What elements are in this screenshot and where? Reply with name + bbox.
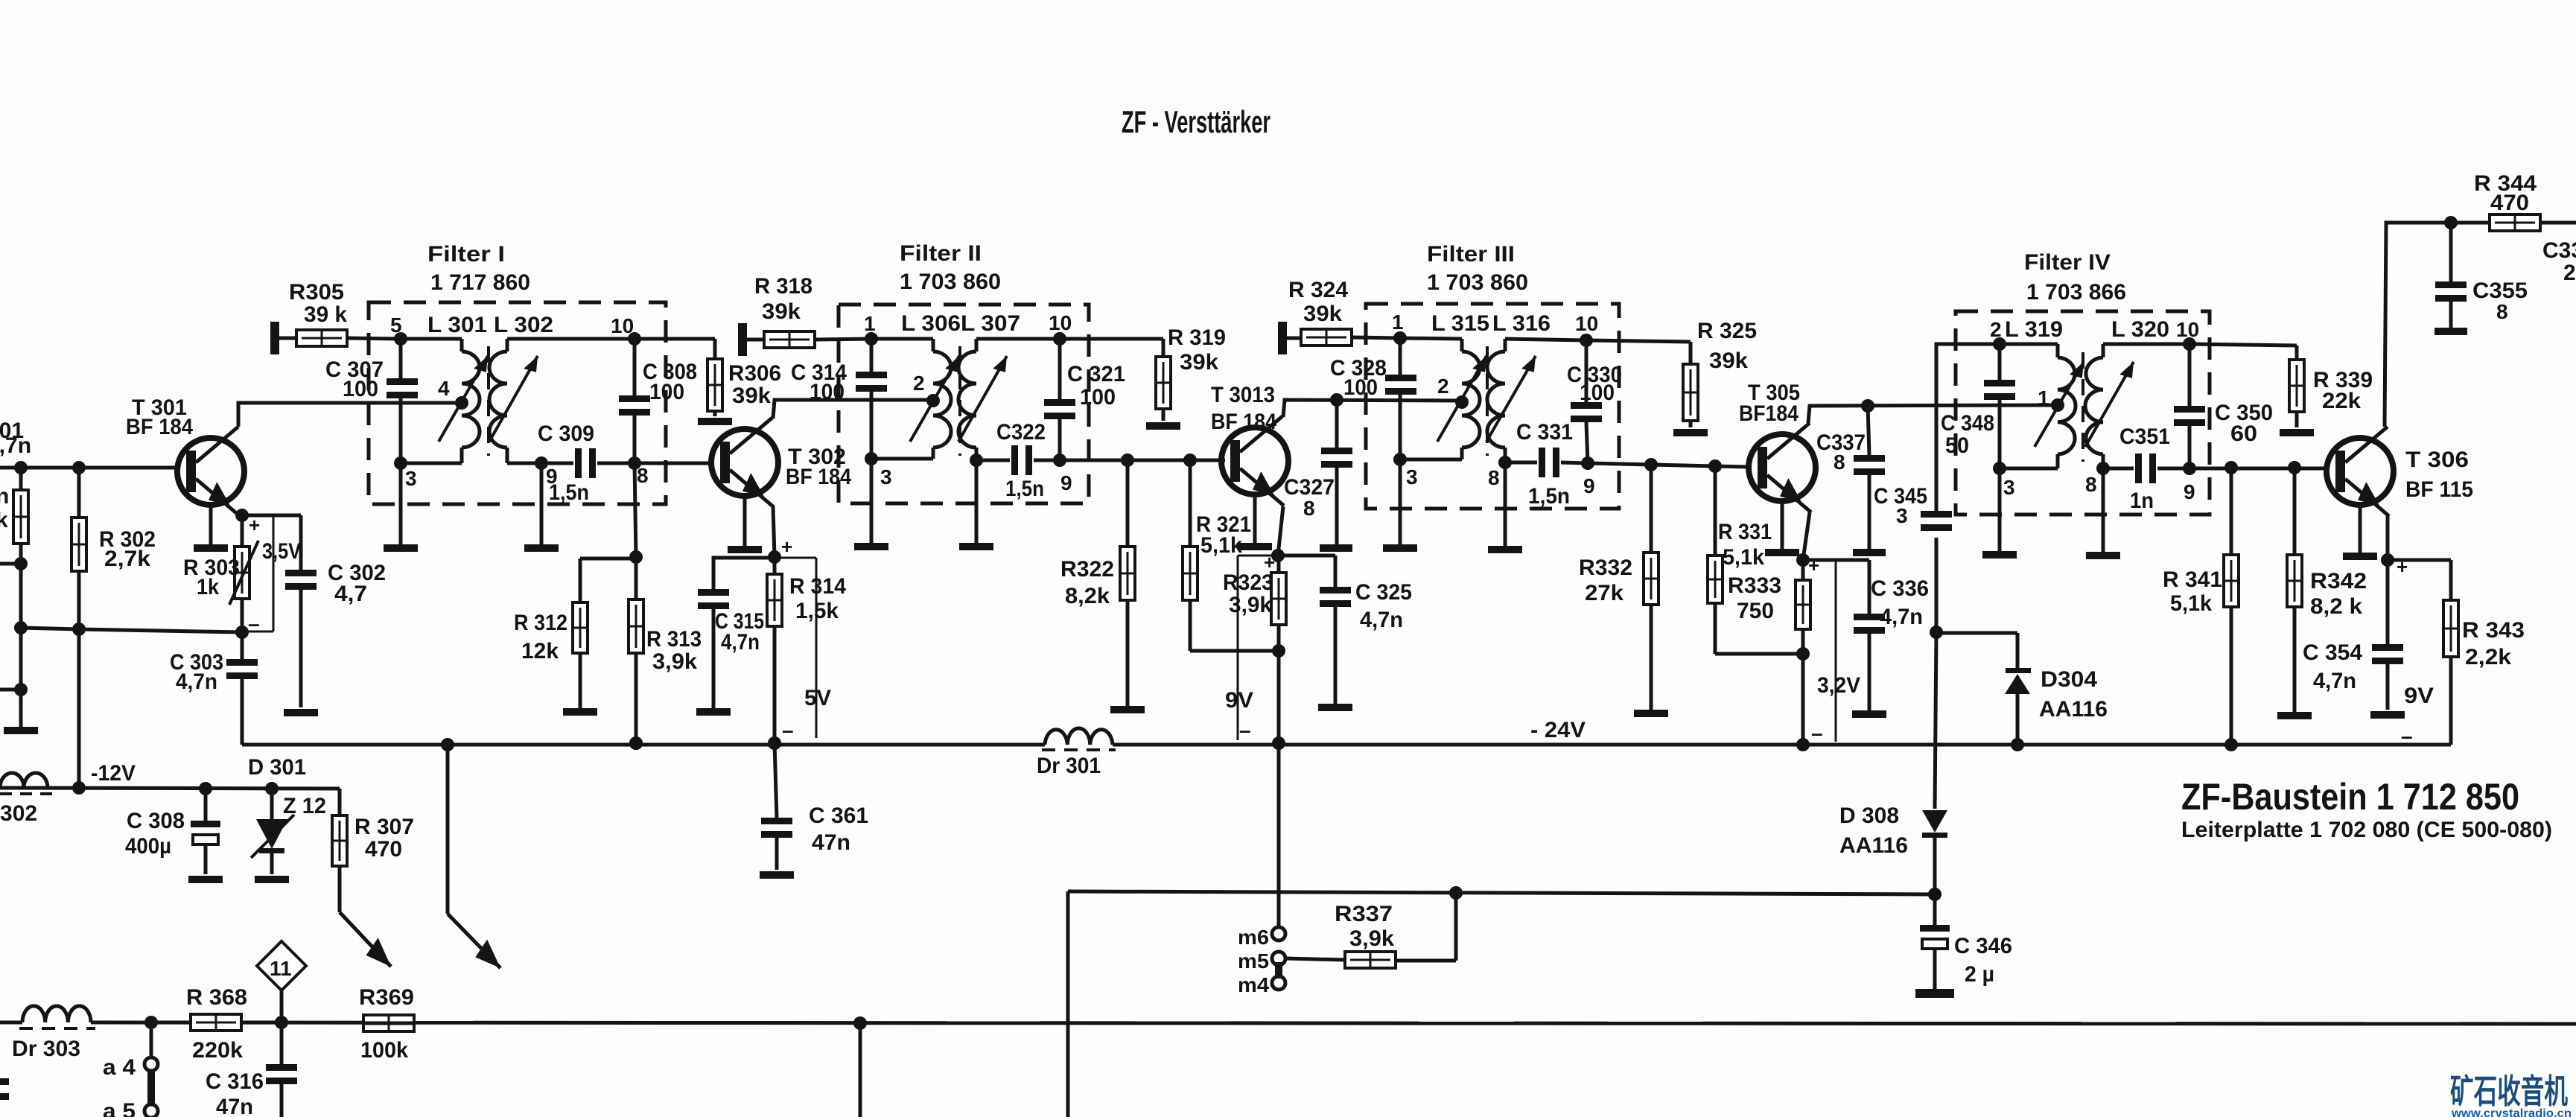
- svg-text:L 306: L 306: [901, 311, 961, 336]
- wire pin8 to T302 base: [635, 462, 711, 465]
- svg-text:r 302: r 302: [0, 801, 37, 826]
- svg-text:R 368: R 368: [186, 985, 247, 1010]
- wire pin2 to L319: [2000, 344, 2058, 357]
- label T306: [2405, 448, 2473, 502]
- svg-text:100: 100: [649, 380, 684, 404]
- svg-text:39k: 39k: [1709, 349, 1748, 373]
- ground R332: [1634, 710, 1668, 717]
- wire L302 top to pin10: [507, 339, 635, 351]
- svg-text:9V: 9V: [1225, 688, 1253, 713]
- label R344: [2474, 171, 2537, 215]
- svg-text:10: 10: [2176, 318, 2199, 341]
- svg-text:100: 100: [343, 377, 378, 401]
- node AGC junction: [1928, 888, 1941, 901]
- svg-text:D 301: D 301: [248, 755, 306, 780]
- capacitor C327: [1320, 400, 1352, 552]
- node pin1 filter II: [864, 312, 878, 346]
- wire pin8 bias drop: [629, 463, 643, 564]
- svg-text:2: 2: [913, 372, 925, 395]
- resistor R323: [1264, 551, 1286, 651]
- svg-text:39k: 39k: [762, 299, 801, 324]
- core line filter IV: [2082, 352, 2084, 462]
- wire T303 collector: [1283, 393, 1460, 417]
- label C361: [809, 803, 868, 855]
- ground R339: [2280, 429, 2314, 436]
- label C316: [206, 1069, 264, 1117]
- label Dr302 fragment: [0, 801, 37, 826]
- title text ZF-Versttaerker: [1122, 104, 1270, 139]
- svg-text:1n: 1n: [2130, 489, 2154, 513]
- label C351: [2119, 424, 2170, 513]
- label T302: [786, 445, 851, 489]
- svg-text:R322: R322: [1060, 557, 1114, 582]
- svg-text:5,1k: 5,1k: [1723, 545, 1764, 570]
- svg-text:47n: 47n: [216, 1095, 253, 1117]
- node pin9 filter II: [1053, 454, 1072, 494]
- svg-text:T 3013: T 3013: [1211, 383, 1275, 407]
- inductor L307: [958, 351, 976, 448]
- resistor R314: [767, 557, 782, 750]
- wire L302 bottom: [507, 448, 541, 463]
- wire pin9III to T305 base: [1588, 458, 1749, 473]
- resistor R303: [229, 515, 258, 639]
- ground C302: [284, 709, 318, 716]
- svg-text:1 717 860: 1 717 860: [430, 270, 530, 295]
- label Filter I: [427, 242, 530, 295]
- svg-text:2,2k: 2,2k: [2465, 645, 2511, 669]
- ground filter I pin3: [384, 463, 418, 552]
- wire emitter to R343: [2388, 560, 2451, 600]
- svg-text:R 313: R 313: [646, 627, 702, 652]
- label L307: [961, 311, 1020, 336]
- svg-text:3,9k: 3,9k: [1229, 593, 1272, 617]
- label R312: [514, 611, 567, 663]
- ground C354: [2370, 711, 2405, 719]
- tuning arrow L320: [2085, 359, 2140, 447]
- svg-text:L 307: L 307: [961, 311, 1020, 336]
- ground filter IV pin3: [1982, 468, 2017, 558]
- contact m4: [1238, 973, 1285, 996]
- svg-text:C 321: C 321: [1067, 362, 1125, 386]
- wire pin10IV to R339: [2189, 344, 2297, 360]
- label R324: [1288, 278, 1348, 326]
- label C336: [1871, 576, 1929, 629]
- capacitor C309: [541, 448, 635, 478]
- svg-text:9V: 9V: [2404, 684, 2434, 708]
- wire pin1 to L315: [1400, 338, 1462, 351]
- label R314: [789, 574, 846, 623]
- capacitor C346: [1915, 894, 1954, 998]
- capacitor C316: [266, 1022, 297, 1117]
- resistor R319: [1156, 357, 1171, 421]
- svg-text:100: 100: [1343, 375, 1378, 400]
- capacitor C322: [976, 445, 1060, 475]
- svg-text:C 331: C 331: [1516, 420, 1573, 445]
- label -24V: [1530, 718, 1586, 742]
- terminal input stage2: [738, 323, 747, 356]
- svg-text:m4: m4: [1238, 973, 1269, 996]
- capacitor C354: [2372, 560, 2403, 710]
- wire T302 emitter to node: [768, 506, 781, 564]
- svg-text:2,7k: 2,7k: [104, 547, 150, 571]
- node pin1 filter III: [1392, 311, 1407, 345]
- label Filter II: [900, 241, 1001, 294]
- svg-text:1 703 866: 1 703 866: [2026, 280, 2126, 305]
- wire m6 tap line: [1277, 743, 1281, 927]
- svg-text:C 354: C 354: [2303, 640, 2362, 665]
- capacitor C314: [856, 339, 887, 459]
- svg-text:R 343: R 343: [2462, 618, 2525, 643]
- svg-text:R332: R332: [1579, 556, 1632, 580]
- node 9 filter I: [535, 456, 558, 488]
- watermark chinese: [2450, 1072, 2568, 1110]
- label R322: [1060, 557, 1114, 608]
- label Leiterplatte: [2181, 818, 2552, 842]
- svg-text:1,5n: 1,5n: [1005, 477, 1044, 501]
- svg-text:10: 10: [1049, 311, 1072, 334]
- svg-text:3: 3: [880, 465, 892, 489]
- svg-text:100k: 100k: [360, 1038, 408, 1063]
- label R305: [289, 280, 347, 327]
- svg-text:4,7n: 4,7n: [0, 433, 31, 458]
- wire T305 collector: [1808, 399, 2058, 423]
- svg-text:1: 1: [1392, 311, 1404, 334]
- capacitor C361: [761, 743, 792, 870]
- label L302: [494, 313, 553, 337]
- resistor R318: [747, 331, 871, 348]
- node R344 junction: [2444, 216, 2458, 229]
- svg-text:矿石收音机: 矿石收音机: [2450, 1072, 2568, 1110]
- svg-text:R369: R369: [359, 985, 414, 1010]
- label L316: [1492, 311, 1551, 336]
- svg-text:4,7n: 4,7n: [1880, 605, 1923, 629]
- wire -24V rail: [242, 736, 2451, 751]
- resistor R322: [1120, 460, 1135, 706]
- resistor R301 fragment: [13, 468, 28, 564]
- svg-text:1: 1: [864, 312, 876, 335]
- svg-text:R 319: R 319: [1168, 325, 1226, 350]
- capacitor C348: [1984, 344, 2015, 468]
- svg-text:2: 2: [1437, 375, 1449, 398]
- wire AGC down to edge: [1066, 891, 1070, 1117]
- svg-text:50: 50: [1945, 433, 1969, 458]
- svg-text:D 308: D 308: [1839, 803, 1899, 828]
- svg-text:C 361: C 361: [809, 803, 868, 828]
- transistor T301: [177, 427, 244, 552]
- svg-text:R306: R306: [728, 361, 781, 386]
- inductor L315: [1437, 351, 1480, 448]
- ground R312: [563, 708, 597, 716]
- label C327: [1284, 475, 1335, 520]
- wire pin9IV to T306 base: [2189, 461, 2327, 474]
- svg-text:470: 470: [365, 837, 402, 862]
- ground filter III node8: [1488, 462, 1522, 553]
- resistor R331: [1708, 466, 1810, 661]
- label C348: [1941, 411, 1994, 458]
- svg-text:220k: 220k: [192, 1038, 243, 1063]
- svg-text:BF184: BF184: [1739, 401, 1799, 426]
- capacitor C303: [226, 632, 258, 745]
- svg-text:Filter III: Filter III: [1427, 242, 1515, 267]
- capacitor C330: [1571, 340, 1602, 463]
- ground C325: [1318, 704, 1352, 711]
- svg-text:10: 10: [1575, 312, 1598, 335]
- svg-text:8: 8: [2496, 300, 2508, 323]
- label L301: [427, 313, 487, 337]
- svg-text:4,7n: 4,7n: [721, 630, 760, 655]
- svg-text:ZF - Versttärker: ZF - Versttärker: [1122, 104, 1270, 139]
- label D301: [248, 755, 326, 818]
- svg-text:C33: C33: [2542, 238, 2576, 263]
- svg-text:C351: C351: [2119, 424, 2170, 449]
- measurement bracket 3,5V: [242, 514, 301, 635]
- watermark url: [2451, 1107, 2572, 1117]
- capacitor C307: [387, 339, 418, 463]
- label R332: [1579, 556, 1632, 605]
- svg-text:8: 8: [637, 464, 649, 487]
- label R368: [186, 985, 247, 1063]
- label R301 fragment: [0, 484, 9, 532]
- svg-text:47n: 47n: [812, 830, 850, 855]
- label R319: [1168, 325, 1226, 375]
- svg-text:a 4: a 4: [103, 1055, 136, 1080]
- label C322: [996, 420, 1046, 501]
- ground R325: [1673, 429, 1708, 436]
- wire T303 emitter node: [1271, 506, 1285, 562]
- transistor T303: [1221, 416, 1288, 550]
- label R337: [1335, 902, 1394, 951]
- svg-text:9: 9: [2184, 480, 2195, 503]
- node pin9 filter III: [1581, 456, 1595, 497]
- svg-text:+: +: [781, 535, 792, 558]
- svg-text:R333: R333: [1728, 573, 1781, 598]
- ground filter IV node8: [2086, 468, 2120, 559]
- svg-text:3,9k: 3,9k: [652, 649, 697, 674]
- label C345: [1874, 484, 1927, 527]
- svg-text:8,2 k: 8,2 k: [2310, 594, 2362, 619]
- node pin9 filter IV: [2183, 462, 2196, 503]
- label D308: [1839, 803, 1908, 858]
- label R369: [359, 985, 414, 1063]
- node pin3 filter II: [865, 452, 892, 489]
- inductor L306: [913, 351, 951, 448]
- node pin5 filter I: [390, 314, 407, 346]
- svg-text:C 316: C 316: [206, 1069, 264, 1094]
- wire pin5 to L301: [401, 339, 462, 351]
- label ZF-Baustein: [2181, 776, 2519, 818]
- capacitor C336: [1854, 560, 1885, 710]
- svg-text:C 325: C 325: [1355, 580, 1412, 605]
- capacitor C302: [285, 570, 317, 707]
- svg-text:39 k: 39 k: [304, 302, 347, 327]
- svg-text:100: 100: [810, 380, 845, 404]
- svg-text:R342: R342: [2310, 569, 2367, 593]
- ground C336: [1852, 710, 1886, 718]
- svg-text:BF 115: BF 115: [2405, 477, 2473, 502]
- svg-text:C322: C322: [996, 420, 1046, 445]
- label L306: [901, 311, 961, 336]
- svg-text:L 316: L 316: [1492, 311, 1551, 336]
- svg-text:2: 2: [1990, 318, 2002, 341]
- ground C361: [760, 871, 794, 879]
- svg-text:750: 750: [1737, 599, 1774, 623]
- wire pin10II to R319: [1060, 339, 1163, 357]
- label Filter III: [1427, 242, 1528, 295]
- label Filter IV: [2024, 250, 2126, 305]
- label C328: [1330, 356, 1387, 400]
- label R323: [1223, 570, 1273, 617]
- svg-text:400µ: 400µ: [125, 834, 171, 859]
- svg-text:3,2V: 3,2V: [1817, 673, 1860, 698]
- capacitor C350: [2174, 344, 2205, 468]
- label T303: [1211, 383, 1276, 434]
- core line filter II: [958, 346, 961, 456]
- transistor T302: [711, 418, 778, 553]
- inductor Dr303: [19, 1006, 95, 1028]
- svg-text:+: +: [1808, 554, 1819, 576]
- resistor R342: [2287, 468, 2302, 712]
- label Dr303: [12, 1037, 80, 1061]
- label Dr301: [1037, 754, 1101, 778]
- svg-text:8: 8: [1488, 466, 1500, 489]
- node pin3 filter I: [394, 456, 417, 490]
- resistor R324: [1287, 329, 1400, 346]
- zener diode D301 Z12: [251, 789, 294, 883]
- svg-text:R323: R323: [1223, 570, 1273, 595]
- svg-text:Dr 303: Dr 303: [12, 1037, 80, 1061]
- svg-text:8: 8: [1834, 451, 1845, 474]
- svg-text:100: 100: [1080, 385, 1116, 410]
- svg-text:Filter I: Filter I: [427, 242, 505, 267]
- label C325: [1355, 580, 1412, 632]
- svg-text:3: 3: [405, 467, 417, 490]
- svg-text:1: 1: [2038, 386, 2049, 410]
- svg-text:9: 9: [1583, 474, 1595, 497]
- node pin8 filter I: [628, 456, 649, 487]
- wire L316 top to pin10: [1505, 339, 1586, 351]
- node pin10 filter IV: [2176, 318, 2199, 351]
- resistor R369: [363, 1015, 414, 1031]
- label R331: [1718, 520, 1772, 570]
- label C354: [2303, 640, 2362, 693]
- link m5-m4: [1275, 962, 1282, 978]
- wire emitter to C325: [1278, 554, 1335, 558]
- svg-text:L 315: L 315: [1431, 311, 1489, 336]
- svg-text:–: –: [1239, 719, 1251, 742]
- arrow AGC switch left: [340, 912, 398, 974]
- tuning arrow L315: [1437, 353, 1492, 442]
- label C33x fragment: [2542, 238, 2576, 285]
- svg-text:C 346: C 346: [1954, 934, 2012, 958]
- label C346: [1954, 934, 2012, 987]
- label R321: [1196, 512, 1251, 558]
- transistor T306: [2327, 427, 2394, 560]
- wire R302-R303 bottom link: [21, 628, 242, 632]
- ground filter II pin3: [854, 459, 888, 550]
- resistor R343: [2443, 600, 2458, 745]
- arrow AGC switch right: [448, 745, 508, 976]
- label R343: [2462, 618, 2525, 669]
- wire pin10 to R306: [635, 339, 715, 359]
- wire R301 chain stubs: [0, 557, 28, 727]
- resistor R332: [1644, 465, 1659, 710]
- svg-text:39k: 39k: [1303, 302, 1342, 326]
- capacitor C308 filter I: [619, 339, 650, 463]
- svg-text:4,7n: 4,7n: [176, 669, 217, 694]
- label -12V: [91, 761, 136, 786]
- svg-text:3: 3: [1406, 465, 1418, 489]
- svg-text:- 24V: - 24V: [1530, 718, 1586, 742]
- svg-text:2 µ: 2 µ: [1965, 962, 1994, 987]
- svg-text:R 312: R 312: [514, 611, 567, 635]
- contact m5: [1238, 949, 1285, 973]
- svg-text:C 308: C 308: [127, 809, 185, 833]
- svg-text:L 302: L 302: [494, 313, 553, 337]
- node pin2 filter IV: [1990, 318, 2006, 351]
- svg-text:–: –: [248, 612, 260, 635]
- svg-text:8: 8: [1303, 497, 1315, 520]
- svg-text:3: 3: [1896, 504, 1908, 527]
- svg-text:www.crystalradio.cn: www.crystalradio.cn: [2451, 1107, 2572, 1117]
- svg-text:1k: 1k: [197, 575, 219, 599]
- label L320: [2111, 317, 2169, 342]
- svg-text:R 324: R 324: [1288, 278, 1348, 302]
- wire L320 top to pin10: [2103, 344, 2189, 357]
- tuning arrow L316: [1486, 353, 1542, 442]
- svg-text:39k: 39k: [1180, 350, 1218, 375]
- wire pin9II to T303 base: [1060, 454, 1225, 467]
- label R318: [754, 274, 812, 324]
- label C321: [1067, 362, 1125, 410]
- resistor R313: [629, 557, 643, 750]
- resistor R339: [2289, 360, 2304, 427]
- capacitor C345: [1921, 511, 1952, 531]
- label L315: [1431, 311, 1489, 336]
- wire L316 bottom node: [1488, 448, 1512, 489]
- filter I dashed box: [369, 302, 666, 504]
- wire pin3 to L306 bottom: [871, 448, 933, 459]
- inductor Dr302: [0, 773, 52, 794]
- wire R323 node to rail: [1272, 651, 1285, 750]
- svg-text:60: 60: [2230, 421, 2257, 446]
- resistor R341: [2224, 468, 2239, 751]
- wire T301 collector: [238, 403, 462, 427]
- node pin10 filter II: [1049, 311, 1072, 346]
- ground for R301 chain: [4, 727, 38, 734]
- wire emitter to C336: [1803, 558, 1869, 562]
- resistor R307: [332, 789, 347, 912]
- label C302: [328, 561, 386, 606]
- label R333: [1728, 573, 1781, 623]
- wire D308 vertical: [1935, 632, 1936, 809]
- svg-text:T 306: T 306: [2405, 448, 2469, 472]
- capacitor fragment left edge: [0, 1078, 9, 1100]
- tuning arrow L302: [489, 353, 544, 442]
- inductor Dr301: [1042, 728, 1116, 750]
- svg-text:D304: D304: [2041, 667, 2097, 692]
- svg-text:3: 3: [2003, 476, 2015, 499]
- svg-text:C 336: C 336: [1871, 576, 1929, 601]
- ground R322: [1110, 706, 1145, 713]
- wire pin3 to L315 bottom: [1400, 448, 1462, 459]
- wire T306 emitter node: [2381, 514, 2408, 578]
- resistor R306: [707, 359, 722, 416]
- svg-text:Leiterplatte 1 702 080 (CE 500: Leiterplatte 1 702 080 (CE 500-080): [2181, 818, 2552, 842]
- wire emitter to C315: [713, 558, 775, 589]
- svg-text:9: 9: [1060, 471, 1072, 494]
- svg-text:1 703 860: 1 703 860: [1427, 270, 1528, 295]
- wire L320 bottom node: [2085, 454, 2110, 496]
